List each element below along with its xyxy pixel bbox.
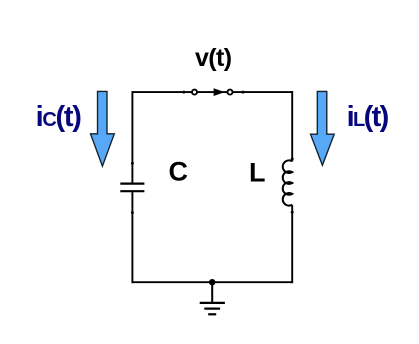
block arrow iC current (left, blue) [91, 91, 115, 166]
capacitor C1 plates [120, 184, 144, 192]
wire bottom [132, 281, 294, 283]
svg-text:iL(t): iL(t) [347, 101, 389, 133]
block arrow iL current (right, blue) [311, 91, 335, 165]
inductor L1 coil [283, 160, 292, 205]
ground junction dot [209, 279, 215, 285]
wire left upper [131, 91, 133, 182]
ground stub wire [211, 282, 213, 302]
svg-text:L: L [249, 158, 266, 188]
current direction arrowhead on top wire [214, 88, 225, 96]
node terminal circle left [192, 90, 197, 95]
svg-text:C: C [169, 156, 189, 186]
inductor pin dot bottom [291, 211, 294, 214]
wire right upper [291, 91, 293, 161]
node pin dot right on top wire [241, 91, 244, 94]
capacitor pin dot top [131, 162, 134, 165]
wire left lower [131, 192, 133, 283]
node pin dot left on top wire [182, 91, 185, 94]
capacitor pin dot bottom [131, 211, 134, 214]
svg-text:v(t): v(t) [195, 44, 232, 72]
inductor pin dot top [291, 158, 294, 161]
ground symbol [200, 303, 225, 314]
wire top [132, 91, 294, 93]
node terminal circle right [228, 90, 233, 95]
wire right lower [291, 205, 293, 283]
svg-text:iC(t): iC(t) [36, 101, 82, 133]
